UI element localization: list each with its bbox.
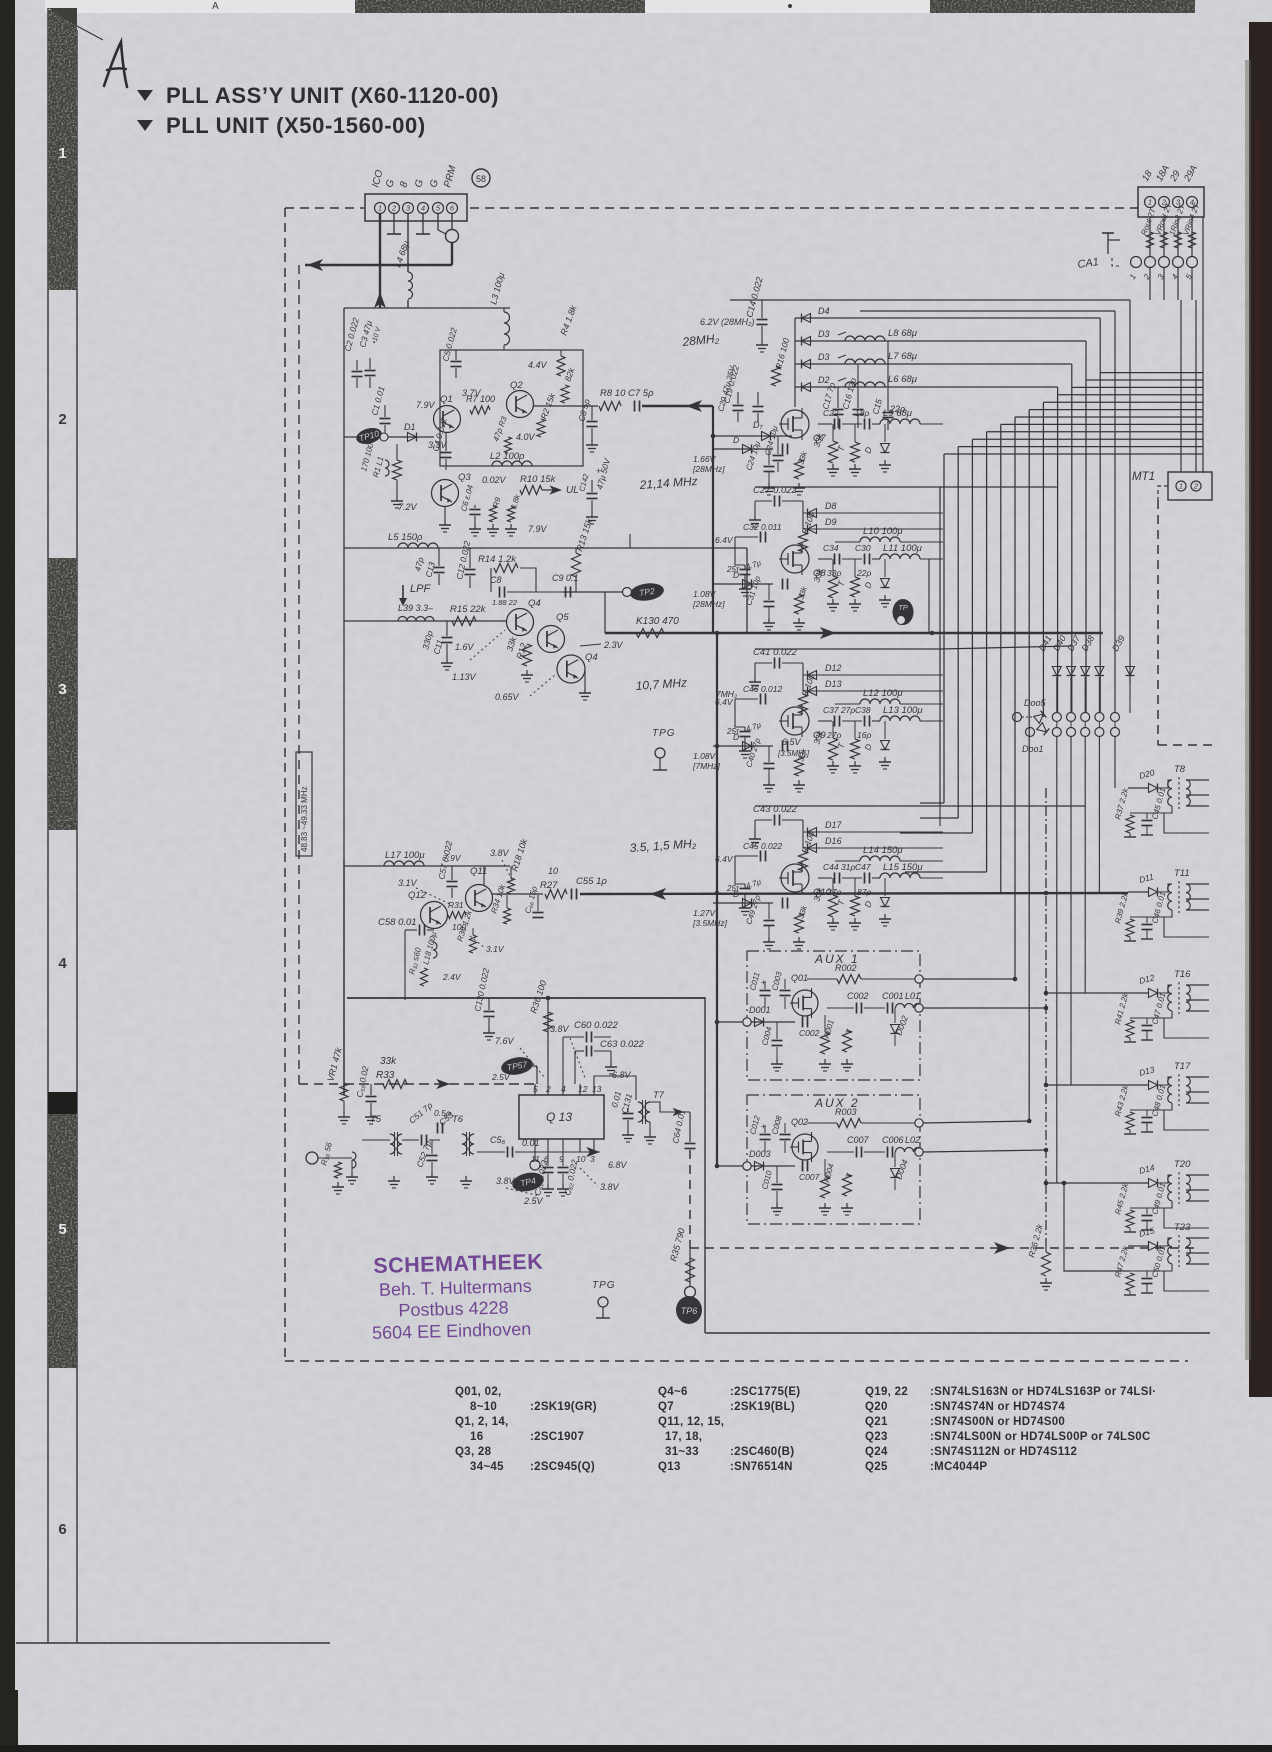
svg-text:3.8V: 3.8V [490,848,510,858]
svg-text:Q1: Q1 [440,394,453,405]
capacitor Cy [764,920,775,922]
wire diode to T11 [1158,884,1172,892]
svg-text::2SC460(B): :2SC460(B) [730,1446,794,1458]
wire T7 to C64 [650,1102,690,1112]
svg-text:Q23: Q23 [865,1431,888,1443]
connector CA1 wires down [1149,268,1151,300]
svg-text:R002: R002 [835,963,857,973]
capacitor C45 0.01 [1142,820,1153,822]
capacitor C15 22p [883,412,894,414]
wire diode to T16 [1158,985,1172,993]
transformer T16 windings [1168,985,1172,1011]
capacitor C57 0.022 [447,881,458,883]
capacitor Cx [782,444,784,455]
capacitor C52 7p [427,1155,438,1157]
transformer T20 right leads [1186,1174,1209,1176]
capacitor C38 [864,716,866,727]
resistor R 33k [829,895,838,917]
svg-text:L02: L02 [905,1135,920,1145]
svg-text:D: D [733,732,739,742]
ground Q6 [584,688,586,693]
capacitor Cz [795,913,804,933]
resistor R003 [837,1119,861,1128]
svg-text:1.08V: 1.08V [693,751,717,761]
diode D20 [1128,787,1148,789]
diode D2 row [795,386,1058,388]
svg-text:Q7: Q7 [658,1401,674,1413]
connector CN1 pin 2 [389,203,400,214]
wire T23 secondary bottom lead [1164,1271,1209,1291]
connector CN2 pin wires down [1149,217,1151,256]
resistor R 33k [829,441,838,463]
resistor R9 [490,506,497,522]
capacitor C006 [887,1147,889,1158]
svg-text:2: 2 [58,411,66,428]
resistor R10 15k [520,486,542,495]
diode row Doo5 [1013,713,1022,722]
wire thick horizontal with arrow [305,264,452,267]
VR1 47k [340,1083,348,1101]
wire C64 down dashed [689,1150,691,1248]
svg-text:48.83 ~49.33 MHz: 48.83 ~49.33 MHz [300,786,309,852]
svg-text:Q11, 12, 15,: Q11, 12, 15, [658,1416,724,1428]
svg-text:6: 6 [58,1521,66,1538]
svg-text:4: 4 [561,1084,566,1094]
oscillator stage Q10 [755,805,940,807]
capacitor C9 0.1 [565,587,567,598]
wires into MT1 [1180,300,1182,472]
capacitor Cz [795,756,804,776]
resistor R 33k [829,738,838,760]
svg-text:3.8V: 3.8V [550,1024,570,1034]
dashed signal line to P6 region [690,1247,1200,1249]
svg-text:5: 5 [533,1084,538,1094]
svg-text:D: D [733,570,739,580]
transformer row links [1044,891,1049,896]
wire T16 left winding bottom [1130,1011,1172,1018]
coil L3 100u [504,312,510,345]
svg-text:2.5V: 2.5V [523,1196,544,1206]
vertical rule right of CN2 [1202,217,1204,473]
svg-text:1: 1 [1148,198,1152,207]
connector CA1 bracket [1108,240,1120,254]
svg-text:7.9V: 7.9V [416,400,436,410]
transistor Q2 [507,391,534,418]
svg-text:Q12: Q12 [408,890,427,901]
svg-text:33k: 33k [380,1056,397,1067]
capacitor C45 0.022 [760,851,762,862]
resistor R14 1.2k [494,564,518,573]
svg-text:Q01, 02,: Q01, 02, [455,1386,502,1398]
svg-text:D17: D17 [825,820,843,830]
diode left input [713,902,773,904]
FET Q01 [792,990,818,1016]
VCO inner box [440,350,583,466]
diode D12 [803,674,943,676]
svg-text:T5: T5 [370,1114,382,1125]
svg-text:13: 13 [592,1084,602,1094]
diode D14 [1128,1182,1148,1184]
wire stage2 top to D41 column [940,486,1057,488]
wire T20 left winding bottom [1130,1201,1172,1208]
svg-text:3.1V: 3.1V [398,878,418,888]
svg-text:T16: T16 [1174,969,1191,980]
connector CA1 pins [1112,258,1120,266]
svg-text:58: 58 [476,174,486,184]
svg-text:7.2V: 7.2V [398,502,418,512]
FET Q10 [781,864,809,892]
wire 28MHz top row [730,299,1130,301]
capacitor C8 5p [587,421,598,423]
svg-text:R003: R003 [835,1107,857,1117]
svg-text:C5₆: C5₆ [490,1135,506,1145]
connector CN1 pin 4 [418,203,429,214]
transformer T8 right leads [1186,779,1209,781]
svg-text:16ρ: 16ρ [857,730,871,740]
svg-text:C41 0.022: C41 0.022 [753,647,798,658]
svg-text:Q5: Q5 [556,612,569,623]
svg-text:3: 3 [590,1154,595,1164]
capacitor C3 47u [365,370,376,372]
svg-text:D8: D8 [825,501,837,511]
svg-text:Q24: Q24 [865,1446,888,1458]
svg-text:PLL ASS’Y UNIT (X60-1120-00): PLL ASS’Y UNIT (X60-1120-00) [166,83,499,108]
wire left spine lower [343,860,345,1095]
svg-text:Q21: Q21 [865,1416,888,1428]
capacitor C30 [864,554,866,565]
svg-text:LPF: LPF [410,583,431,595]
svg-text:C8: C8 [490,575,502,585]
svg-text:6.2V (28MH₂): 6.2V (28MH₂) [700,317,754,327]
wire T5 T6 row [362,1139,390,1141]
coil L10 100μ [860,537,900,542]
capacitor C48 0.01 [1142,1117,1153,1119]
connector CN2 pin 3 [1173,197,1184,208]
svg-text:7.6V: 7.6V [495,1036,515,1046]
capacitor C58 0.01 [419,925,421,936]
svg-text:Doo1: Doo1 [1022,744,1044,754]
wire diode to T17 [1158,1077,1172,1085]
wire bus to Q13 area [347,997,705,999]
diode column D41 D40 D37 D38 D39 [1052,667,1061,676]
svg-text:87ρ: 87ρ [857,887,871,897]
svg-text::SN76514N: :SN76514N [730,1461,793,1473]
svg-text:12: 12 [578,1084,588,1094]
svg-text:0.65V: 0.65V [495,692,520,702]
svg-text:D: D [733,889,739,899]
svg-text::SN74LS00N or HD74LS00P or: :SN74LS00N or HD74LS00P or 74LS0C [930,1431,1151,1443]
svg-text:1: 1 [378,204,382,213]
coil L01 [896,1004,923,1009]
dashed boundary right stub [1158,744,1212,746]
svg-text:TP: TP [898,603,908,612]
capacitor Cy [764,466,775,468]
wire VCO output to R8 [533,405,598,407]
resistor R34 10k [504,908,511,924]
svg-text:C34: C34 [823,543,839,553]
svg-text:K130 470: K130 470 [636,616,679,627]
wire T11 left winding bottom [1130,910,1172,917]
transformer T23 windings [1168,1238,1172,1264]
wire pin3 down with L4 [407,214,409,272]
SCHEMATHEEK rubber stamp [370,1250,545,1343]
handwritten A mark [104,42,127,87]
capacitor C41 0.022 [774,658,776,669]
capacitor C32 0.011 [760,532,762,543]
svg-text:Q11: Q11 [470,866,487,877]
grounds under Q3 [444,520,446,525]
capacitor C6 0.04 [470,509,481,511]
capacitor Cx [782,741,784,752]
capacitor C50 0.01 [1142,1278,1153,1280]
svg-text:T20: T20 [1174,1159,1191,1170]
capacitor C62 0.022 [562,1152,564,1166]
capacitor Cz [795,459,804,479]
trimmer T [851,442,860,462]
ground pin4 [422,214,424,234]
svg-text:D9: D9 [825,517,837,527]
svg-text:T7: T7 [653,1090,665,1101]
resistor R 100 [799,694,808,714]
wire thick 10MHz output line [605,632,1103,635]
capacitor C003 [780,990,791,992]
svg-text:C7 5ρ: C7 5ρ [628,388,654,399]
resistor R2 15k [537,419,545,437]
connector CN1 circled 58 [472,169,490,187]
transformer T23 right leads [1186,1237,1209,1239]
capacitor C142 47u 50V [587,493,598,495]
svg-text:C006: C006 [882,1135,904,1145]
svg-text:6.8V: 6.8V [612,1070,632,1080]
svg-text:Q02: Q02 [791,1117,808,1127]
bottom rule line [16,1642,330,1644]
capacitor 4.7u [740,569,751,571]
right block dash-dot boundary [1045,788,1047,1246]
connector CN1 pin 5 [433,203,444,214]
connector CN1 pin 3 [403,203,414,214]
capacitor C008 [780,1134,791,1136]
diode left input [713,583,773,585]
svg-text:C30: C30 [855,543,871,553]
svg-text:Q4: Q4 [528,598,541,609]
output node AUX 1 lower [915,1004,923,1012]
bus top row verticals [1114,311,1116,712]
transistor Q12 [421,902,448,929]
diode D16 [803,847,943,849]
resistor R32 L60 [421,968,428,986]
resistor R36 100 [547,998,549,1084]
capacitor Cy [764,601,775,603]
svg-text:31~33: 31~33 [665,1446,699,1458]
svg-text:T11: T11 [1174,868,1190,879]
LPF inner box [490,568,492,592]
resistor R4 1.8k [557,356,565,376]
diode D001 [717,1021,795,1023]
diode D4 row [795,317,1100,319]
svg-text:L14 150μ: L14 150μ [863,845,903,856]
dashed boundary left side [284,208,286,1361]
capacitor C44 31ρ [834,873,836,884]
svg-text:C43 0.022: C43 0.022 [753,804,798,815]
svg-text:+: + [761,1122,766,1131]
capacitor C001 [887,1003,889,1014]
svg-text:7.9V: 7.9V [528,524,548,534]
capacitor C1 0.01 [380,418,391,420]
resistor R001 [821,1032,830,1054]
svg-text:L39 3.3–: L39 3.3– [398,603,434,613]
coil L11 100μ [880,554,920,559]
diode D3b row [795,363,1072,365]
svg-text:16: 16 [470,1431,483,1443]
trimmer T [851,577,860,597]
svg-text:Q3: Q3 [458,472,471,483]
capacitor C63 0.022 [586,1046,588,1057]
transformer T17 right leads [1186,1076,1209,1078]
svg-text:L15 150μ: L15 150μ [883,862,923,873]
svg-text:1.88 22: 1.88 22 [492,598,518,607]
svg-text::2SC1775(E): :2SC1775(E) [730,1386,800,1398]
svg-text:C45 0.022: C45 0.022 [743,841,782,851]
capacitor C16 12p [853,409,864,411]
coil L13 100μ [880,716,920,721]
transformer T17 windings [1168,1077,1172,1103]
capacitor C47 0.01 [1142,1025,1153,1027]
Q11 block top edge [344,865,510,867]
svg-text:Postbus 4228: Postbus 4228 [398,1297,509,1320]
svg-text:C47: C47 [855,862,871,872]
svg-text:C002: C002 [847,991,869,1001]
resistor R45 2.2k [1126,1210,1134,1228]
svg-text:L10 100μ: L10 100μ [863,526,903,537]
wire stage3 top to D40 column [940,646,1071,649]
wire pin11 terminal [534,1152,536,1160]
diode D13 [1128,1084,1148,1086]
svg-text:3.8V: 3.8V [600,1182,620,1192]
trimmer T [851,739,860,759]
diode D11 [1128,891,1148,893]
svg-text:T8: T8 [1174,764,1186,775]
svg-text:TP6: TP6 [681,1306,698,1316]
wire stage4 top to D37 column [940,805,1085,807]
svg-text:3: 3 [58,681,66,698]
svg-text::SN74S112N or HD74S112: :SN74S112N or HD74S112 [930,1446,1077,1458]
svg-text:R8 10: R8 10 [600,388,626,399]
svg-text:+: + [761,978,766,987]
capacitor C61 0.022 [547,1152,549,1166]
wire diode to T20 [1158,1175,1172,1183]
transformer T7 [638,1102,643,1122]
diode D down [884,878,886,896]
svg-text:T17: T17 [1174,1061,1191,1072]
svg-text:4: 4 [421,204,425,213]
connector CN1 box [365,194,467,221]
dashed boundary right vertical [1157,500,1159,745]
test point TP2 [563,591,627,593]
svg-text::2SK19(BL): :2SK19(BL) [730,1401,795,1413]
svg-text:Doo5: Doo5 [1024,698,1047,708]
capacitor C130 0.022 [484,1011,495,1013]
svg-text:Q2: Q2 [510,380,523,391]
capacitor C37 27ρ [834,716,836,727]
output node AUX 2 upper [915,1119,923,1127]
wire T8 left winding bottom [1130,806,1172,813]
svg-text:L7 68μ: L7 68μ [888,351,918,362]
svg-text:Q13: Q13 [658,1461,681,1473]
wire thick pin1 down VCO feed [379,214,381,308]
coil L7 68μ [845,359,885,364]
capacitor C13 47p [434,567,445,569]
svg-text:C58 0.01: C58 0.01 [378,917,417,928]
test point TP57 [500,1055,534,1077]
input node AUX 1 [743,1018,751,1026]
transformer T20 windings [1168,1175,1172,1201]
wire T11 secondary bottom lead [1164,917,1209,937]
svg-text:A: A [212,1,219,12]
svg-text:Q4: Q4 [585,652,598,663]
coil L17 100u [384,861,424,866]
diode D7 row [713,435,792,437]
resistor K130 470 [636,629,664,638]
wire T20 secondary bottom lead [1164,1208,1209,1228]
svg-text:C63 0.022: C63 0.022 [600,1039,645,1050]
svg-text::2SC1907: :2SC1907 [530,1431,584,1443]
FET Q8 [781,545,809,573]
svg-text:R33: R33 [376,1070,395,1081]
sidebar top corner [48,8,77,26]
svg-text:MT1: MT1 [1132,471,1155,483]
capacitor C2 0.022 [352,371,363,373]
svg-text:D13: D13 [825,679,842,689]
diode D down [884,559,886,577]
resistor R39 2.2k [1126,919,1134,937]
svg-text::SN74LS163N or HD74LS163P or 7: :SN74LS163N or HD74LS163P or 74LSI· [930,1386,1156,1398]
resistor 1Rin3 2T [1175,232,1182,248]
resistor R43 2.2k [1126,1112,1134,1130]
coil L2 100u [492,461,532,466]
capacitor C002 [856,1003,858,1014]
input terminal left [306,1152,318,1164]
top edge strips [45,0,355,13]
FET Q7 [781,410,809,438]
svg-text:1: 1 [58,145,66,162]
connector TP6 blob [685,1287,696,1298]
diode D1 [344,436,434,438]
resistor R30 1.2k [470,935,477,953]
LPF block top edge [344,547,747,549]
bus column left turn-ins to stages [920,802,944,804]
svg-text:R15 22k: R15 22k [450,604,487,615]
FET Q02 [792,1134,818,1160]
wire diode to T8 [1158,780,1172,788]
test point TP10 [355,425,384,446]
right dark scan edge [1249,22,1272,1397]
svg-text:22ρ: 22ρ [856,568,871,578]
capacitor Cx [782,898,784,909]
terminal circle pin5-6 [437,214,439,230]
svg-text:2: 2 [545,1084,551,1094]
resistor R004 [821,1176,830,1198]
svg-text:L13 100μ: L13 100μ [883,705,923,716]
svg-text:L2 100ρ: L2 100ρ [490,451,525,462]
svg-text:6.5V: 6.5V [782,737,802,747]
svg-text:[3.5MHz]: [3.5MHz] [692,918,728,928]
resistor R15 22k [452,617,476,626]
dashed boundary top-right segment [470,207,1138,209]
capacitor 18ρ [864,419,866,430]
transistor Q11 [466,885,493,912]
oscillator stage Q8 [755,486,940,488]
svg-text:D3: D3 [818,352,830,362]
